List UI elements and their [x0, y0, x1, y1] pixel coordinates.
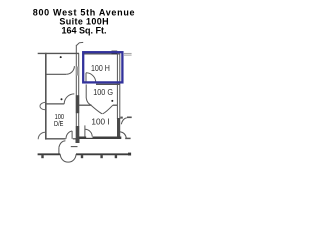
wire gray stub b — [124, 54, 132, 56]
wire left-middle wall — [45, 73, 66, 75]
dot 1 — [60, 56, 62, 58]
door 100G double left — [91, 105, 102, 114]
wire hook right lower dash — [125, 137, 130, 139]
bottom line right end cap — [128, 153, 131, 156]
tick 1 — [41, 155, 43, 158]
door 100H arc — [86, 73, 96, 83]
tick 2 — [81, 155, 83, 158]
wire bottom line right — [76, 153, 131, 155]
door 100G double right — [103, 105, 113, 114]
corridor wall dark fill upper — [76, 95, 79, 113]
wire top wall — [38, 52, 79, 54]
wire DE bottom wall right bit — [73, 138, 76, 140]
door vestibule arc 2 — [59, 141, 66, 148]
wire 100G bottom wall right — [113, 104, 117, 106]
svg-text:D/E: D/E — [54, 119, 64, 128]
dot 3 — [111, 100, 113, 102]
door arc middle-left — [66, 66, 74, 74]
svg-text:100 H: 100 H — [91, 64, 110, 73]
wall block top right — [112, 51, 118, 55]
wire lobby dash — [71, 146, 78, 148]
wire top wall under blue — [84, 53, 120, 55]
wire left wall — [45, 53, 47, 140]
door vestibule leaf 1 — [71, 131, 73, 139]
door vestibule arc 1 — [66, 131, 72, 139]
door bump left wall upper — [40, 102, 46, 110]
100I bottom thick wall — [79, 137, 121, 140]
wire corridor wall right line — [78, 53, 80, 141]
svg-text:164 Sq. Ft.: 164 Sq. Ft. — [61, 25, 106, 35]
wire hook right upper dash — [127, 116, 132, 118]
door vestibule leaf 2 — [58, 147, 60, 154]
wire corridor wall left line — [75, 45, 77, 141]
tick 4 — [115, 155, 117, 158]
door bump left wall lower — [38, 132, 45, 139]
svg-text:100 G: 100 G — [93, 88, 113, 97]
wire right wall line b — [119, 54, 121, 120]
dot 2 — [61, 98, 63, 100]
wire gray stub a — [124, 52, 132, 54]
corridor wall dark fill lower — [76, 126, 79, 141]
door 100H leaf — [85, 73, 87, 83]
wire right wall line a — [116, 54, 118, 120]
wire 100DE top wall — [47, 103, 65, 105]
door hook right lower arc — [120, 132, 126, 139]
door hook top corridor — [77, 42, 84, 45]
door bottom bump arc — [60, 154, 76, 162]
suite 100H highlight box — [83, 52, 122, 82]
svg-text:100 I: 100 I — [91, 118, 109, 127]
door 100G west arc — [86, 98, 91, 105]
door arc DE east — [64, 94, 74, 104]
wall stub right of corridor — [120, 117, 122, 119]
tick 3 — [100, 155, 102, 158]
corridor wall gray fill — [76, 67, 79, 76]
corridor wall bottom blob — [76, 138, 80, 143]
door hook right upper arc — [121, 118, 127, 124]
wire 100G bottom wall left — [79, 104, 91, 106]
wire DE bottom wall — [45, 138, 65, 140]
wire bottom line left — [38, 153, 61, 155]
right wall dark fill — [117, 118, 120, 139]
door 100I arc — [85, 129, 92, 136]
door 100I leaf — [84, 125, 86, 136]
wire 100H bottom wall — [96, 83, 120, 85]
door 100G west leaf — [85, 84, 87, 98]
100I door threshold gap — [86, 137, 92, 138]
